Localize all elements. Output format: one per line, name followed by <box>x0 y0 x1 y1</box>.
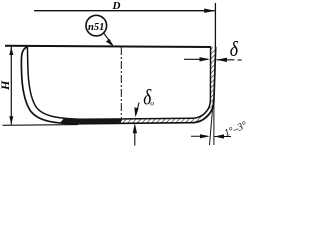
svg-text:п51: п51 <box>88 22 104 33</box>
arrowhead of D dimension <box>204 9 215 13</box>
svg-text:δ: δ <box>230 39 239 62</box>
centerline (axis, dash-dot) <box>120 47 122 121</box>
rim top line (also H top extension) <box>5 46 211 47</box>
delta dimension left arrow <box>184 58 208 60</box>
cup inner contour <box>27 47 210 119</box>
wire: D dimension line <box>34 10 215 12</box>
arrowhead H top <box>9 47 13 55</box>
angle dimension right arrow <box>214 136 231 138</box>
arrowhead of leader <box>106 39 114 47</box>
wire: drafted wall extension line <box>210 98 214 145</box>
hatched material section (right wall + bottom strip) <box>88 47 216 123</box>
angle dimension left arrow <box>191 135 208 137</box>
wire: H bottom extension line <box>3 124 79 127</box>
wire: dash after delta arrow tail <box>238 59 242 61</box>
delta0 up arrow <box>134 126 136 146</box>
wire: D extension line (right, outer wall extended) <box>214 3 216 47</box>
wire: vertical reference line for draft angle <box>213 100 215 145</box>
cup outer contour (left wall, bottom, right corner, right wall) <box>21 47 215 124</box>
H dimension line <box>10 47 12 125</box>
svg-text:H: H <box>0 80 12 91</box>
svg-text:o: o <box>150 99 154 108</box>
bottom thin-wall dark band left of axis <box>60 118 121 123</box>
arrowhead H bottom <box>9 116 13 124</box>
wire: leader from п51 circle <box>104 33 113 45</box>
delta0 down arrow <box>136 103 139 115</box>
circle callout п51 <box>86 15 107 36</box>
delta dimension right arrow <box>217 59 235 61</box>
svg-text:D: D <box>112 0 121 12</box>
